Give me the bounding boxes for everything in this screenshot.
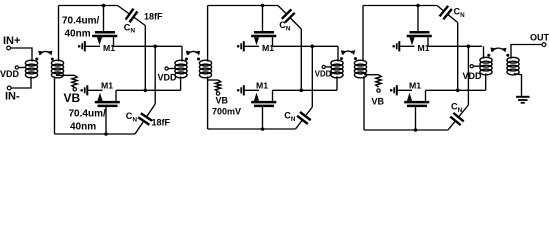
wire bbox=[363, 76, 365, 130]
transistor M1 stage3 top bbox=[407, 32, 432, 46]
transistor M1 stage1 bottom bbox=[95, 90, 120, 106]
ground bbox=[80, 85, 87, 95]
wire bbox=[485, 74, 487, 91]
wire bbox=[180, 76, 182, 90]
inductor T3 primary bbox=[331, 60, 343, 78]
node gate2+ bbox=[261, 4, 265, 8]
svg-text:M1: M1 bbox=[418, 43, 430, 53]
label CN3 bbox=[279, 20, 291, 32]
svg-text:IN+: IN+ bbox=[3, 35, 20, 47]
wire bbox=[244, 89, 259, 91]
svg-text:OUT: OUT bbox=[530, 33, 550, 43]
node VB1 terminal bbox=[73, 88, 76, 91]
wire bbox=[11, 76, 31, 88]
svg-text:M1: M1 bbox=[101, 80, 113, 90]
inductor T2 secondary bbox=[199, 60, 211, 78]
wire bbox=[473, 65, 480, 67]
svg-text:70.4um/: 70.4um/ bbox=[62, 15, 99, 26]
coupling arrow T2 bbox=[186, 51, 200, 56]
label CN2 bbox=[126, 111, 138, 123]
node T1 secondary dot bbox=[51, 58, 54, 61]
inductor T3 secondary bbox=[354, 60, 366, 78]
capacitor CN2 bottom bbox=[135, 104, 155, 134]
coupling arrow T4 bbox=[490, 48, 506, 53]
wire bbox=[103, 6, 105, 32]
node drain2+ bbox=[311, 45, 315, 49]
wire bbox=[426, 89, 486, 91]
wire bbox=[467, 46, 469, 105]
wire bbox=[300, 29, 302, 90]
node T2 primary dot bbox=[185, 58, 188, 61]
node drain3+ bbox=[467, 45, 471, 49]
node VB3 terminal bbox=[377, 89, 380, 92]
wire bbox=[105, 107, 107, 134]
label W/L M1b bbox=[69, 108, 106, 132]
label W/L M1a bbox=[62, 15, 99, 39]
transistor M1 stage2 top bbox=[251, 32, 276, 46]
wire bbox=[208, 5, 278, 7]
wire bbox=[144, 26, 146, 91]
wire bbox=[154, 46, 156, 104]
svg-text:VB: VB bbox=[372, 97, 385, 107]
node gate2- bbox=[261, 127, 265, 131]
ground bbox=[390, 85, 397, 95]
ground bbox=[237, 41, 244, 51]
label M1 bbox=[409, 80, 421, 90]
wire bbox=[514, 74, 522, 96]
label M1 bbox=[101, 80, 113, 90]
power VDD bbox=[315, 65, 332, 78]
wire bbox=[244, 45, 259, 47]
wire bbox=[55, 133, 136, 135]
wire bbox=[262, 107, 264, 129]
transistor M1 stage1 top bbox=[92, 32, 117, 46]
wire bbox=[85, 45, 100, 47]
wire bbox=[364, 74, 379, 76]
svg-text:M1: M1 bbox=[256, 80, 268, 90]
ground bbox=[237, 85, 244, 95]
capacitor CN1 top bbox=[118, 6, 146, 26]
power VDD bbox=[463, 65, 483, 81]
label M1 bbox=[256, 80, 268, 90]
label CN6 bbox=[451, 102, 463, 114]
label M1 bbox=[262, 43, 274, 53]
capacitor CN5 top bbox=[437, 6, 458, 23]
wire bbox=[483, 46, 485, 58]
wire bbox=[363, 5, 437, 7]
wire bbox=[397, 89, 412, 91]
coupling arrow T1 bbox=[38, 51, 52, 56]
wire bbox=[54, 76, 56, 134]
wire bbox=[362, 6, 364, 62]
resistor RB1 bbox=[72, 75, 77, 87]
wire bbox=[428, 45, 482, 47]
node T1 primary dot bbox=[35, 58, 38, 61]
transistor M1 stage2 bottom bbox=[251, 90, 276, 106]
label 18fF bbox=[152, 118, 171, 128]
wire bbox=[114, 45, 183, 47]
label M1 bbox=[103, 43, 115, 53]
wire bbox=[11, 48, 32, 62]
label 18fF bbox=[144, 11, 163, 21]
node IN+ terminal bbox=[3, 35, 20, 50]
wire bbox=[337, 46, 339, 61]
wire bbox=[59, 5, 118, 7]
wire bbox=[18, 67, 26, 69]
svg-text:VDD: VDD bbox=[463, 71, 483, 81]
inductor T2 primary bbox=[175, 60, 187, 78]
svg-text:VDD: VDD bbox=[315, 70, 332, 79]
ground bbox=[392, 41, 399, 51]
svg-text:VB: VB bbox=[216, 96, 229, 106]
label CN1 bbox=[124, 22, 136, 34]
wire bbox=[457, 23, 459, 91]
node gate3+ bbox=[416, 4, 420, 8]
wire bbox=[262, 6, 264, 32]
wire bbox=[311, 46, 313, 107]
node gate1- bbox=[104, 132, 108, 136]
node IN- terminal bbox=[5, 86, 20, 102]
wire bbox=[181, 46, 183, 61]
node VB2 terminal bbox=[216, 92, 219, 95]
wire bbox=[87, 89, 102, 91]
svg-text:M1: M1 bbox=[262, 43, 274, 53]
power VDD bbox=[0, 66, 20, 79]
inductor T1 primary bbox=[25, 60, 37, 78]
wire bbox=[273, 45, 339, 47]
wire bbox=[325, 66, 331, 68]
resistor RB3 bbox=[376, 75, 381, 87]
ground bbox=[78, 41, 85, 51]
label 700mV bbox=[212, 107, 241, 117]
node gate3- bbox=[414, 128, 418, 132]
node drain1- bbox=[144, 89, 148, 93]
svg-text:40nm: 40nm bbox=[65, 28, 91, 39]
svg-text:18fF: 18fF bbox=[144, 11, 163, 21]
label VB1 bbox=[64, 91, 81, 105]
svg-text:70.4um/: 70.4um/ bbox=[69, 108, 106, 119]
svg-text:18fF: 18fF bbox=[152, 118, 171, 128]
node T2 secondary dot bbox=[197, 58, 200, 61]
inductor T1 secondary bbox=[51, 60, 63, 78]
node drain3- bbox=[456, 89, 460, 93]
wire bbox=[273, 89, 338, 91]
node T3 primary dot bbox=[340, 57, 343, 60]
wire bbox=[399, 45, 414, 47]
wire bbox=[207, 6, 209, 62]
node OUT terminal bbox=[530, 33, 550, 47]
wire bbox=[511, 45, 542, 59]
label CN4 bbox=[284, 111, 296, 123]
label CN5 bbox=[454, 7, 466, 19]
svg-text:M1: M1 bbox=[409, 80, 421, 90]
wire bbox=[168, 68, 175, 70]
svg-text:40nm: 40nm bbox=[70, 121, 96, 132]
inductor T4 secondary bbox=[507, 57, 519, 75]
label VB3 bbox=[372, 97, 385, 107]
svg-text:VDD: VDD bbox=[0, 69, 20, 79]
ground bbox=[516, 97, 530, 103]
node T4 secondary dot bbox=[506, 54, 509, 57]
capacitor CN4 bottom bbox=[296, 107, 313, 129]
label M1 bbox=[418, 43, 430, 53]
node drain2- bbox=[300, 89, 304, 93]
wire bbox=[56, 74, 75, 76]
wire bbox=[58, 6, 60, 62]
node T4 primary dot bbox=[487, 54, 490, 57]
wire bbox=[415, 107, 417, 130]
wire bbox=[207, 76, 209, 129]
resistor RB2 bbox=[215, 80, 220, 92]
svg-text:VB: VB bbox=[64, 91, 81, 105]
node T3 secondary dot bbox=[354, 57, 357, 60]
svg-text:VDD: VDD bbox=[158, 73, 178, 83]
node drain1+ bbox=[153, 45, 157, 49]
label VB2 bbox=[216, 96, 229, 106]
node gate1+ bbox=[102, 4, 106, 8]
wire bbox=[364, 129, 448, 131]
power VDD bbox=[158, 67, 178, 83]
wire bbox=[417, 6, 419, 32]
coupling arrow T3 bbox=[341, 50, 355, 55]
wire bbox=[208, 79, 218, 81]
wire bbox=[116, 89, 181, 91]
capacitor CN6 bottom bbox=[448, 105, 468, 130]
wire bbox=[208, 128, 296, 130]
inductor T4 primary bbox=[480, 57, 492, 75]
svg-text:IN-: IN- bbox=[5, 91, 20, 103]
transistor M1 stage3 bottom bbox=[404, 90, 429, 106]
wire bbox=[336, 76, 338, 90]
capacitor CN3 top bbox=[278, 6, 301, 30]
svg-text:M1: M1 bbox=[103, 43, 115, 53]
svg-text:700mV: 700mV bbox=[212, 107, 241, 117]
